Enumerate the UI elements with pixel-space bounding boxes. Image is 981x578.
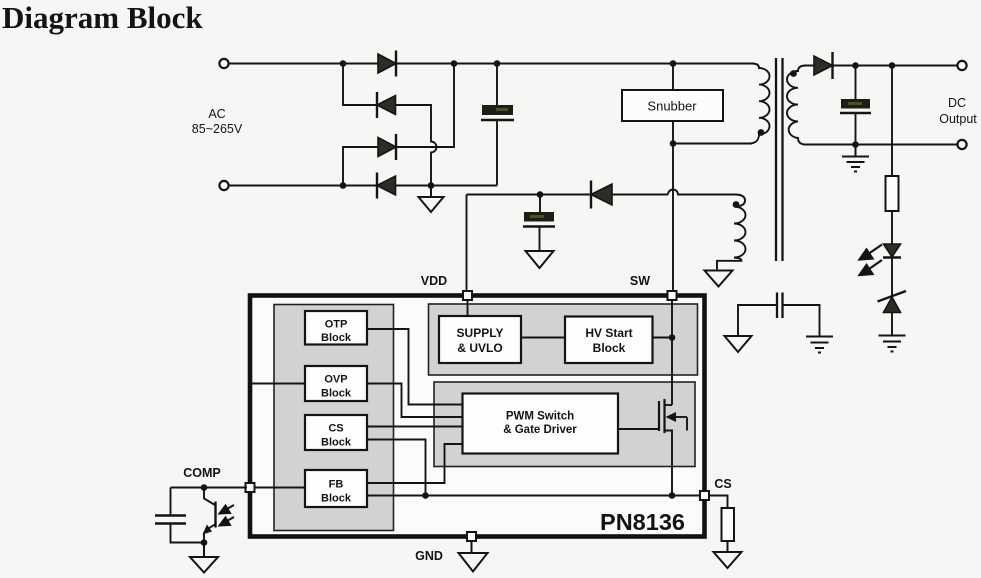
svg-text:Block: Block: [321, 437, 352, 449]
optocoupler emitter arrow: [203, 525, 213, 535]
node output cap top: [852, 62, 859, 69]
svg-text:GND: GND: [415, 549, 443, 563]
svg-text:Block: Block: [321, 493, 352, 505]
transformer secondary winding: [787, 66, 806, 145]
pin CS: [700, 491, 709, 500]
svg-text:HV Start: HV Start: [585, 326, 632, 340]
block OTP: [305, 311, 367, 345]
diode D5 vdd: [591, 181, 612, 209]
svg-text:OTP: OTP: [325, 319, 348, 331]
label DC Output: [939, 96, 977, 126]
svg-text:Block: Block: [321, 388, 352, 400]
wire hv to SW line: [653, 337, 673, 339]
node top rail x673: [670, 60, 677, 67]
ground Y-cap left: [725, 336, 752, 352]
capacitor COMP: [155, 488, 204, 543]
node CS line mosfet source: [669, 492, 676, 499]
zener diode: [878, 291, 907, 313]
ground CS resistor: [714, 541, 742, 568]
svg-text:AC: AC: [208, 107, 225, 121]
LED optocoupler emitter: [883, 244, 901, 258]
wire secondary bottom to output: [804, 144, 958, 146]
resistor feedback: [886, 176, 899, 211]
svg-text:CS: CS: [328, 423, 343, 435]
ground earth feedback: [879, 336, 906, 352]
svg-text:SW: SW: [630, 274, 650, 288]
capacitor Y between grounds: [738, 293, 820, 337]
capacitor output: [840, 66, 871, 145]
block left gray group: [274, 305, 394, 531]
node feedback tap top: [889, 62, 896, 69]
resistor CS: [722, 508, 735, 541]
block middle gray group: [434, 382, 695, 467]
transistor optocoupler output: [204, 488, 216, 543]
wire FB to CS pin long: [367, 495, 705, 497]
snubber box: [622, 64, 723, 144]
ground GND pin: [459, 541, 488, 572]
block SUPPLY & UVLO: [439, 316, 521, 363]
svg-text:PN8136: PN8136: [600, 509, 685, 535]
transformer primary winding: [749, 64, 770, 144]
ground aux winding: [705, 271, 733, 287]
diode D4: [377, 173, 396, 199]
wire OTP to PWM: [367, 329, 463, 405]
svg-text:85~265V: 85~265V: [192, 122, 243, 136]
terminal AC top: [219, 59, 228, 68]
LED light arrows: [860, 245, 883, 276]
transistor Q1 mosfet: [618, 399, 687, 496]
node bottom rail x431: [428, 182, 435, 189]
block OVP: [305, 366, 367, 401]
node top rail x454: [451, 60, 458, 67]
ground earth Y-cap right: [806, 337, 833, 353]
svg-text:Block: Block: [593, 341, 626, 355]
pin COMP: [246, 483, 255, 492]
node secondary polarity dot: [790, 70, 797, 77]
diode D2: [377, 92, 396, 118]
wire LED to zener: [891, 258, 893, 297]
node bottom rail x343: [340, 182, 347, 189]
terminal AC bottom: [219, 181, 228, 190]
capacitor bulk input: [481, 64, 514, 186]
block top gray group: [429, 304, 698, 375]
node primary polarity dot: [758, 129, 765, 136]
wire D3 input riser: [343, 147, 378, 186]
wire top rail: [229, 63, 754, 65]
wire VDD riser to pin: [466, 195, 468, 294]
node COMP collector tap: [201, 484, 208, 491]
wire D3 output riser: [396, 64, 454, 148]
wire bridge riser top-left: [343, 64, 377, 106]
node VDD cap tap: [537, 191, 544, 198]
wire snubber to primary bottom: [673, 143, 752, 145]
svg-text:SUPPLY: SUPPLY: [457, 326, 504, 340]
wire OVP to PWM: [367, 384, 463, 418]
wire COMP external: [171, 487, 248, 489]
node top rail x497: [494, 60, 501, 67]
wire feedback riser: [891, 66, 893, 177]
wire CS block to PWM: [367, 426, 463, 428]
wire zener to ground: [891, 313, 893, 336]
wire SW line down: [672, 144, 674, 294]
svg-text:Snubber: Snubber: [647, 99, 697, 114]
svg-text:CS: CS: [714, 477, 731, 491]
wire COMP pin to FB: [252, 487, 305, 489]
block PWM Switch & Gate Driver: [463, 394, 619, 454]
block FB: [305, 470, 367, 507]
node COMP cap bottom: [201, 539, 208, 546]
label AC 85~265V: [192, 107, 243, 136]
transformer aux winding: [717, 195, 746, 271]
block HV Start: [565, 317, 653, 364]
svg-text:Diagram Block: Diagram Block: [2, 0, 203, 35]
ground earth output: [842, 145, 869, 172]
wire CS block to CS line: [367, 440, 426, 496]
transformer core: [775, 58, 777, 261]
diode D6 output: [814, 52, 833, 79]
block CS: [305, 415, 367, 450]
wire VDD horizontal with hop over SW: [467, 190, 736, 195]
pin GND: [467, 532, 476, 541]
wire supply to hv: [521, 337, 565, 339]
wire D2 output riser with hop: [396, 105, 437, 186]
svg-text:OVP: OVP: [324, 374, 347, 386]
node hv sw junction: [669, 334, 676, 341]
terminal DC bottom: [957, 140, 966, 149]
node CS line x425: [422, 492, 429, 499]
wire FB to PWM: [367, 444, 463, 483]
svg-text:& Gate Driver: & Gate Driver: [503, 424, 577, 436]
diode D3: [378, 134, 396, 160]
node snubber bottom: [670, 140, 677, 147]
IC PN8136 outer block: [250, 296, 705, 537]
optocoupler light arrows: [220, 505, 235, 526]
wire bottom rail: [229, 185, 497, 187]
node top rail x343: [340, 60, 347, 67]
svg-text:PWM Switch: PWM Switch: [506, 411, 574, 423]
ground bridge: [419, 186, 444, 213]
node aux polarity dot: [733, 201, 740, 208]
svg-text:DC: DC: [948, 96, 966, 110]
capacitor VDD: [523, 195, 555, 252]
wire SW pin to mosfet drain: [671, 297, 673, 405]
wire CS pin to resistor: [709, 496, 728, 509]
mosfet body arrow: [666, 412, 677, 422]
pin VDD: [463, 291, 472, 300]
node output cap bottom: [852, 141, 859, 148]
svg-text:Block: Block: [321, 332, 352, 344]
ground VDD cap: [526, 251, 554, 268]
wire secondary top to output: [804, 65, 958, 67]
svg-text:COMP: COMP: [183, 466, 221, 480]
wire VDD pin to supply: [467, 297, 469, 316]
wire OVP to left border: [252, 383, 305, 385]
svg-text:VDD: VDD: [421, 274, 447, 288]
ground COMP network: [190, 543, 218, 573]
terminal DC top: [957, 61, 966, 70]
svg-text:& UVLO: & UVLO: [457, 341, 502, 355]
svg-text:Output: Output: [939, 112, 977, 126]
pin SW: [668, 291, 677, 300]
wire resistor to LED: [891, 211, 893, 244]
diode D1: [378, 51, 396, 77]
svg-text:FB: FB: [329, 479, 344, 491]
